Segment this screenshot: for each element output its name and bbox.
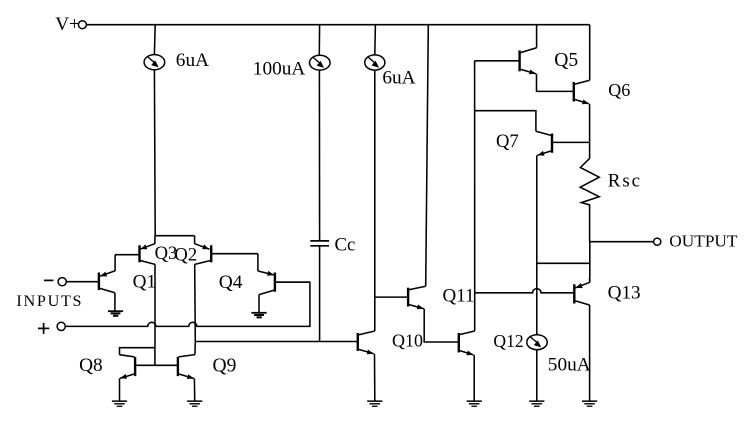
label Q12 bbox=[493, 331, 523, 351]
ground Q12 bbox=[467, 400, 482, 407]
current source I1 6uA bbox=[144, 25, 165, 236]
svg-text:INPUTS: INPUTS bbox=[16, 292, 83, 310]
terminal IN+ bbox=[38, 322, 65, 334]
label 6uA (I3) bbox=[382, 68, 415, 89]
terminal IN- bbox=[44, 278, 66, 286]
svg-text:Q6: Q6 bbox=[608, 80, 630, 100]
label Q10 bbox=[392, 331, 423, 351]
transistor Q12 bbox=[459, 331, 475, 401]
transistor Q10 bbox=[358, 331, 375, 401]
wire Q9 collector to Q10 base bbox=[195, 341, 357, 343]
current source I3 6uA bbox=[365, 25, 385, 331]
label Q4 bbox=[219, 272, 243, 293]
transistor Q2 bbox=[195, 236, 258, 342]
svg-text:Q10: Q10 bbox=[392, 331, 423, 351]
label 100uA bbox=[253, 59, 306, 80]
svg-text:Q9: Q9 bbox=[213, 355, 237, 376]
label Q7 bbox=[496, 131, 519, 152]
current source I2 100uA bbox=[310, 25, 331, 241]
ground Q8 bbox=[112, 400, 127, 407]
current source I4 50uA bbox=[527, 261, 547, 400]
svg-text:Q1: Q1 bbox=[133, 272, 156, 293]
transistor Q1 bbox=[99, 255, 139, 311]
svg-text:6uA: 6uA bbox=[176, 50, 209, 71]
label 6uA (I1) bbox=[176, 50, 209, 71]
transistor Q7 bbox=[475, 111, 590, 262]
label Q6 bbox=[608, 80, 630, 100]
transistor Q5 bbox=[475, 25, 574, 92]
wire IN+ to Q4 base bbox=[66, 282, 310, 326]
capacitor Cc bbox=[310, 241, 329, 342]
label Rsc bbox=[608, 171, 642, 192]
label Cc bbox=[335, 235, 356, 256]
ground I4 bbox=[529, 400, 544, 407]
label 50uA bbox=[548, 354, 591, 375]
svg-text:Q13: Q13 bbox=[608, 282, 641, 303]
label OUTPUT bbox=[669, 231, 738, 250]
ground Q13 bbox=[582, 400, 597, 407]
svg-text:6uA: 6uA bbox=[382, 68, 415, 89]
svg-text:Q8: Q8 bbox=[79, 355, 103, 376]
wire top rail bbox=[87, 24, 590, 26]
svg-text:OUTPUT: OUTPUT bbox=[669, 231, 738, 250]
svg-text:Q12: Q12 bbox=[493, 331, 523, 351]
label Q5 bbox=[554, 50, 578, 71]
label Q2 bbox=[174, 245, 197, 266]
wire output branch bbox=[590, 241, 654, 243]
resistor Rsc bbox=[580, 158, 599, 241]
transistor Q4 bbox=[258, 271, 310, 312]
label Q1 bbox=[133, 272, 156, 293]
terminal OUTPUT bbox=[654, 238, 661, 245]
wire node A vertical bbox=[474, 61, 476, 331]
transistor Q13 bbox=[475, 278, 590, 401]
label Q11 bbox=[443, 285, 475, 306]
svg-text:V+: V+ bbox=[55, 14, 80, 35]
label V+ bbox=[55, 14, 80, 35]
label Q9 bbox=[213, 355, 237, 376]
label Q13 bbox=[608, 282, 641, 303]
wire IN- base bbox=[67, 281, 99, 283]
svg-text:Q5: Q5 bbox=[554, 50, 578, 71]
ground Q4 bbox=[251, 312, 266, 319]
svg-text:Q2: Q2 bbox=[174, 245, 197, 266]
transistor Q9 bbox=[178, 342, 195, 401]
label Q8 bbox=[79, 355, 103, 376]
wire emitter rail bbox=[155, 235, 195, 237]
wire to Q13 collector bbox=[589, 242, 591, 283]
svg-text:Cc: Cc bbox=[335, 235, 356, 256]
transistor Q3 bbox=[140, 236, 156, 348]
svg-text:Q11: Q11 bbox=[443, 285, 475, 306]
terminal V+ bbox=[78, 21, 86, 29]
wire cross branch bbox=[537, 262, 590, 264]
transistor Q6 bbox=[574, 25, 590, 159]
svg-text:Q7: Q7 bbox=[496, 131, 519, 152]
ground Q9 bbox=[187, 400, 202, 407]
label Q3 bbox=[155, 243, 178, 264]
svg-text:50uA: 50uA bbox=[548, 354, 591, 375]
svg-text:Q4: Q4 bbox=[219, 272, 243, 293]
svg-text:100uA: 100uA bbox=[253, 59, 306, 80]
svg-text:Rsc: Rsc bbox=[608, 171, 642, 192]
transistor Q8 bbox=[120, 348, 178, 401]
transistor Q11 bbox=[375, 25, 459, 342]
label INPUTS bbox=[16, 292, 83, 310]
ground Q10 bbox=[367, 400, 382, 407]
ground Q1 bbox=[108, 310, 123, 317]
